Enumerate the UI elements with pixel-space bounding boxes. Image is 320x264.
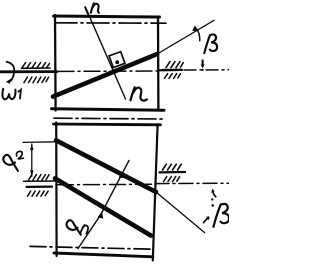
label beta top xyxy=(204,34,217,53)
wheel 2 axis dash-dot inside xyxy=(58,183,153,186)
wheel 2 right bearing line xyxy=(160,171,186,174)
wheel 2 axis right dash-dot xyxy=(155,182,229,184)
left bearing wheel 1 upper line xyxy=(22,67,51,69)
wheel 2 cylinder right edge xyxy=(153,124,158,260)
normal force arrow line Pn xyxy=(78,161,129,249)
P2 dimension line xyxy=(31,144,33,176)
label n (top) xyxy=(91,3,99,12)
right bearing wheel 1 lower hatch xyxy=(165,74,181,79)
wheel 2 cylinder bottom edge xyxy=(54,253,153,257)
right bearing wheel 1 line xyxy=(163,69,181,71)
helix line wheel 1 (thick) xyxy=(53,54,157,97)
beta bottom lower tick arrow xyxy=(204,217,209,222)
right bearing wheel 1 upper hatch xyxy=(166,62,183,68)
helix extension thin line wheel 2 xyxy=(156,192,205,233)
left bearing wheel 1 lower hatch xyxy=(24,77,49,83)
wheel 1 axis right dash-dot xyxy=(184,69,229,71)
wheel 2 bottom generator dash-dot line xyxy=(30,246,152,249)
dot in square xyxy=(115,60,119,64)
wheel 2 cylinder top edge xyxy=(54,123,161,127)
helix line wheel 2 upper (thick) xyxy=(56,140,156,192)
label P2 xyxy=(3,151,23,171)
label beta bottom xyxy=(213,204,229,227)
helix extension thin line wheel 1 xyxy=(157,20,214,54)
left bearing wheel 1 upper hatch xyxy=(22,63,50,68)
helix line wheel 2 lower (thick) xyxy=(55,178,151,235)
wheel 1 axis dash-dot inside xyxy=(58,70,157,72)
wheel 2 left bearing line B xyxy=(27,186,53,188)
right-angle square marker xyxy=(109,52,125,68)
wheel 2 left bearing line A xyxy=(24,180,58,182)
wheel 2 right bearing upper hatch xyxy=(163,164,182,170)
label n (bottom) xyxy=(131,87,147,100)
label omega1 xyxy=(2,89,21,100)
wheel 1 axis left shaft xyxy=(0,70,57,73)
normal line n-n xyxy=(86,8,126,100)
wheel 2 right bearing lower hatch xyxy=(164,177,180,182)
wheel 1 top generator dash-dot line xyxy=(55,22,166,24)
rotation direction arrow xyxy=(7,62,15,82)
wheel 1 axis right shaft xyxy=(159,69,182,72)
wheel 1 cylinder left edge xyxy=(54,15,57,111)
wheel 1 cylinder right edge xyxy=(157,17,160,111)
wheel 1 cylinder top edge xyxy=(54,16,160,17)
beta top axis arrow tick xyxy=(202,60,204,66)
contact dash-dot line between wheels xyxy=(54,117,163,120)
beta top angle arc with arrowhead xyxy=(196,29,200,41)
wheel 2 left bearing lower hatch xyxy=(28,191,49,196)
wheel 2 left bearing upper hatch xyxy=(29,175,50,180)
beta bottom axis arrow tick xyxy=(213,191,216,197)
beta bottom angle dotted arc xyxy=(211,198,213,200)
label Pn xyxy=(66,220,88,234)
P2 extension line xyxy=(23,141,56,144)
wheel 1 cylinder bottom edge xyxy=(52,109,165,111)
wheel 2 cylinder left edge xyxy=(55,123,58,257)
